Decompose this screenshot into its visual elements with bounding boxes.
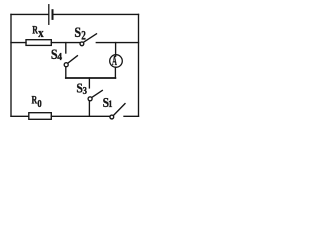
wire top rail left segment xyxy=(11,13,48,15)
ammeter A1 circle xyxy=(110,55,123,68)
svg-text:3: 3 xyxy=(83,86,88,97)
wire bottom rail middle xyxy=(51,115,110,117)
wire right vertical xyxy=(138,14,140,116)
switch S4 xyxy=(64,43,77,67)
wire rail2 left xyxy=(11,42,26,44)
switch S2 xyxy=(80,34,97,46)
wire top rail right segment xyxy=(54,13,139,15)
wire S4 bottom lead xyxy=(65,67,67,78)
resistor R0 xyxy=(29,113,52,120)
svg-text:x: x xyxy=(38,25,44,40)
svg-text:S: S xyxy=(74,24,81,40)
switch S3 xyxy=(88,78,102,101)
svg-text:1: 1 xyxy=(108,99,113,110)
wire S3 bottom lead xyxy=(88,101,90,117)
wire bottom rail right xyxy=(124,115,139,117)
wire rail2 right xyxy=(96,42,138,44)
svg-text:A: A xyxy=(112,54,117,69)
svg-text:0: 0 xyxy=(37,98,41,110)
svg-text:4: 4 xyxy=(57,52,62,63)
wire middle horizontal xyxy=(66,77,116,79)
wire rail2 middle xyxy=(51,42,80,44)
battery xyxy=(49,5,53,25)
svg-text:2: 2 xyxy=(81,29,86,43)
wire ammeter bottom lead xyxy=(114,67,116,78)
wire ammeter top lead xyxy=(115,43,117,57)
wire bottom rail left xyxy=(11,115,29,117)
wire left vertical xyxy=(10,14,12,116)
switch S1 xyxy=(110,104,125,119)
resistor Rx xyxy=(26,40,51,46)
